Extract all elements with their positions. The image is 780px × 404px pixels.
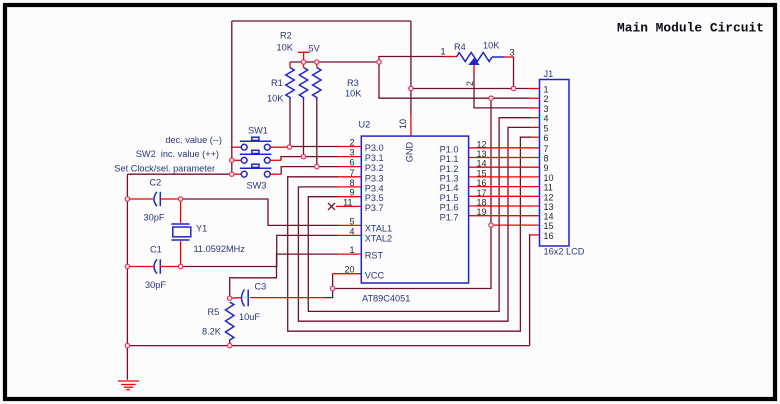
junction C2 left — [125, 197, 129, 201]
svg-text:3: 3 — [510, 48, 515, 58]
junction VCC J1 pin2 — [489, 96, 493, 100]
svg-text:1: 1 — [349, 245, 354, 255]
capacitor C3 — [230, 282, 267, 323]
svg-text:4: 4 — [544, 114, 549, 124]
svg-text:R3: R3 — [347, 78, 359, 88]
wire P3.7 no-connect — [328, 203, 361, 210]
svg-text:dec. value (--): dec. value (--) — [165, 135, 222, 145]
svg-text:17: 17 — [477, 188, 487, 198]
svg-text:3: 3 — [544, 104, 549, 114]
wire P1.0 to J1 pin7 — [469, 147, 540, 149]
wire VCC to C3 — [250, 289, 333, 298]
svg-text:R4: R4 — [454, 42, 466, 52]
svg-text:RST: RST — [365, 251, 384, 261]
wire GND bottom rail — [127, 345, 529, 347]
switch SW3 — [240, 164, 272, 190]
svg-text:4: 4 — [349, 226, 354, 236]
svg-text:C1: C1 — [150, 245, 162, 255]
svg-text:C2: C2 — [150, 178, 162, 188]
svg-text:C3: C3 — [255, 282, 267, 292]
wire J1 pin6 to P3.3 — [288, 137, 540, 331]
wire rail to R4 pin1 — [379, 57, 457, 63]
wire VCC vertical branch — [333, 98, 491, 288]
junction R1 P3.0 — [287, 145, 291, 149]
svg-text:P1.0: P1.0 — [440, 144, 459, 154]
svg-text:XTAL2: XTAL2 — [365, 233, 392, 243]
svg-text:30pF: 30pF — [145, 280, 166, 290]
wire P1.7 to J1 pin14 — [469, 215, 540, 217]
svg-text:12: 12 — [544, 192, 554, 202]
svg-text:R2: R2 — [280, 31, 292, 41]
svg-text:P1.7: P1.7 — [440, 212, 459, 222]
capacitor C2 — [144, 178, 181, 223]
wire stub SW1 left — [232, 146, 241, 148]
svg-text:P1.2: P1.2 — [440, 164, 459, 174]
svg-text:P1.1: P1.1 — [440, 154, 459, 164]
svg-text:8: 8 — [349, 178, 354, 188]
wire SW3 to P3.2 — [270, 167, 361, 175]
svg-text:J1: J1 — [544, 69, 554, 79]
svg-text:14: 14 — [477, 159, 487, 169]
junction GND J1 pin1 — [409, 86, 413, 90]
potentiometer R4 — [441, 41, 540, 108]
svg-text:R5: R5 — [208, 307, 220, 317]
capacitor C1 — [145, 245, 181, 291]
crystal Y1 — [171, 199, 245, 267]
svg-text:Set Clock/sel. parameter: Set Clock/sel. parameter — [114, 164, 215, 174]
junction rail R2 — [301, 60, 305, 64]
resistor R2 — [277, 31, 308, 157]
svg-text:13: 13 — [544, 202, 554, 212]
wire GND far-left vertical — [126, 174, 128, 345]
junction VCC corner — [330, 286, 334, 290]
junction R3 P3.2 — [315, 164, 319, 168]
svg-text:10K: 10K — [267, 94, 284, 104]
junction R4 pin3 — [511, 86, 515, 90]
svg-text:P3.1: P3.1 — [365, 153, 384, 163]
svg-text:Y1: Y1 — [196, 224, 207, 234]
svg-text:18: 18 — [477, 198, 487, 208]
junction C1 left — [125, 264, 129, 268]
svg-text:1: 1 — [441, 47, 446, 57]
resistor R1 — [267, 62, 294, 147]
ground — [118, 346, 139, 390]
svg-text:SW3: SW3 — [247, 181, 267, 191]
wire J1 pin4 to P3.5 — [308, 118, 539, 312]
svg-text:9: 9 — [349, 188, 354, 198]
svg-text:10K: 10K — [345, 89, 362, 99]
wire J1 pin5 to P3.4 — [298, 127, 539, 321]
power 5V — [298, 44, 321, 63]
junction R5 bottom — [228, 343, 232, 347]
svg-text:16: 16 — [544, 231, 554, 241]
wire SW1 to P3.0 — [270, 146, 361, 149]
junction C2 right Y1 — [178, 197, 182, 201]
svg-text:R1: R1 — [271, 78, 283, 88]
wire RST net — [230, 254, 362, 298]
svg-text:P3.2: P3.2 — [365, 163, 384, 173]
svg-text:10: 10 — [544, 173, 554, 183]
wire stub SW3 left — [232, 173, 241, 175]
junction R2 P3.1 — [301, 154, 305, 158]
svg-text:P1.6: P1.6 — [440, 203, 459, 213]
wire GND left vertical — [231, 21, 233, 174]
junction GND SW2 — [230, 158, 234, 162]
svg-text:XTAL1: XTAL1 — [365, 223, 392, 233]
switch SW2 — [240, 150, 272, 163]
wire J1 pin2 row — [379, 62, 540, 98]
svg-text:P1.3: P1.3 — [440, 174, 459, 184]
wire P1.4 to J1 pin11 — [469, 186, 540, 188]
svg-text:5: 5 — [544, 123, 549, 133]
wire GND to U2 pin10 — [410, 21, 412, 136]
svg-text:9: 9 — [544, 163, 549, 173]
wire J1 pin16 to GND rail — [530, 235, 540, 346]
wire P1.1 to J1 pin8 — [469, 157, 540, 159]
wire GND top horizontal — [232, 20, 411, 22]
svg-text:U2: U2 — [359, 120, 371, 130]
wire J1 pin15 — [491, 224, 540, 226]
svg-text:15: 15 — [544, 221, 554, 231]
svg-text:2: 2 — [544, 94, 549, 104]
wire GND horizontal to far left — [127, 173, 231, 175]
switch SW1 — [240, 126, 272, 151]
svg-text:10K: 10K — [483, 41, 500, 51]
wire C1 left — [127, 266, 153, 268]
svg-text:10uF: 10uF — [239, 312, 260, 322]
svg-text:16: 16 — [477, 178, 487, 188]
wire stub SW2 left — [232, 159, 241, 161]
junction rail R3 — [315, 60, 319, 64]
svg-text:SW2 inc. value (++): SW2 inc. value (++) — [136, 149, 219, 159]
svg-text:20: 20 — [344, 265, 354, 275]
svg-text:SW1: SW1 — [248, 126, 268, 136]
svg-text:VCC: VCC — [365, 270, 385, 280]
svg-text:AT89C4051: AT89C4051 — [362, 294, 410, 304]
svg-text:6: 6 — [349, 158, 354, 168]
junction C1 right Y1 — [178, 264, 182, 268]
svg-text:Main Module Circuit: Main Module Circuit — [617, 21, 764, 36]
wire P1.3 to J1 pin10 — [469, 176, 540, 178]
svg-text:P3.7: P3.7 — [365, 203, 384, 213]
svg-text:P1.4: P1.4 — [440, 183, 459, 193]
wire 5V rail — [290, 61, 379, 63]
svg-text:6: 6 — [544, 133, 549, 143]
svg-text:2: 2 — [465, 81, 475, 86]
wire P1.5 to J1 pin12 — [469, 195, 540, 197]
connector J1 16x2 LCD — [540, 69, 585, 257]
junction rail R4 branch — [377, 60, 381, 64]
junction GND SW3 corner — [230, 172, 234, 176]
svg-text:12: 12 — [477, 139, 487, 149]
wire P1.2 to J1 pin9 — [469, 166, 540, 168]
svg-text:7: 7 — [349, 168, 354, 178]
svg-text:10: 10 — [398, 119, 408, 129]
svg-text:7: 7 — [544, 144, 549, 154]
wire SW2 to P3.1 — [270, 157, 361, 161]
svg-text:P3.3: P3.3 — [365, 173, 384, 183]
svg-text:30pF: 30pF — [144, 213, 165, 223]
wire J1 pin1 row — [411, 88, 540, 90]
svg-text:P3.4: P3.4 — [365, 183, 384, 193]
svg-text:11: 11 — [343, 197, 352, 207]
wire C2 left — [127, 198, 153, 200]
svg-text:10K: 10K — [277, 43, 294, 53]
svg-text:11.0592MHz: 11.0592MHz — [194, 244, 246, 254]
svg-text:2: 2 — [349, 138, 354, 148]
svg-text:8: 8 — [544, 154, 549, 164]
svg-text:8.2K: 8.2K — [202, 327, 222, 337]
resistor R3 — [313, 62, 363, 167]
svg-text:3: 3 — [349, 148, 354, 158]
junction RST node — [228, 296, 232, 300]
label switch functions — [114, 135, 222, 174]
svg-text:15: 15 — [477, 168, 487, 178]
svg-text:13: 13 — [477, 149, 487, 159]
svg-text:19: 19 — [477, 207, 487, 217]
svg-text:P3.0: P3.0 — [365, 143, 384, 153]
wire XTAL2 net — [181, 235, 362, 266]
resistor R5 — [202, 302, 234, 346]
IC U2 AT89C4051 — [343, 119, 486, 304]
svg-text:11: 11 — [544, 183, 553, 193]
svg-text:P3.5: P3.5 — [365, 193, 384, 203]
svg-text:1: 1 — [544, 85, 549, 95]
svg-text:5: 5 — [349, 216, 354, 226]
svg-text:P1.5: P1.5 — [440, 193, 459, 203]
wire P1.6 to J1 pin13 — [469, 205, 540, 207]
junction GND ground rail left — [125, 343, 129, 347]
wire XTAL1 net — [181, 199, 362, 225]
svg-text:5V: 5V — [309, 44, 321, 54]
svg-text:16x2 LCD: 16x2 LCD — [544, 247, 585, 257]
svg-text:GND: GND — [405, 141, 415, 162]
junction J1 pin15 VCC — [489, 223, 493, 227]
